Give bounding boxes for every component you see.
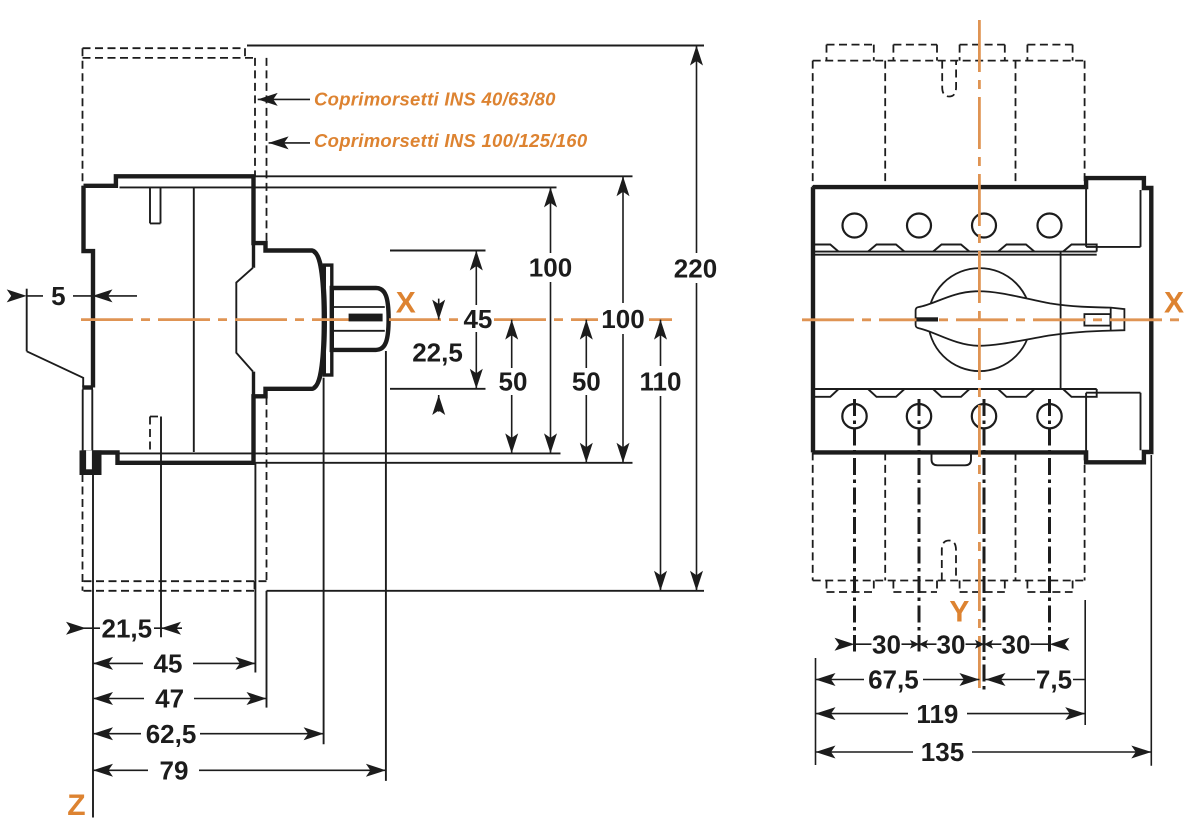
svg-text:Coprimorsetti INS 40/63/80: Coprimorsetti INS 40/63/80 bbox=[314, 89, 556, 110]
svg-text:47: 47 bbox=[155, 684, 184, 714]
svg-text:Coprimorsetti INS 100/125/160: Coprimorsetti INS 100/125/160 bbox=[314, 130, 588, 151]
svg-text:100: 100 bbox=[529, 253, 572, 283]
svg-text:50: 50 bbox=[572, 367, 601, 397]
svg-text:Z: Z bbox=[67, 789, 85, 822]
svg-text:30: 30 bbox=[937, 629, 966, 659]
svg-text:21,5: 21,5 bbox=[101, 613, 152, 643]
svg-text:X: X bbox=[396, 286, 416, 319]
svg-text:62,5: 62,5 bbox=[146, 719, 197, 749]
svg-text:45: 45 bbox=[154, 649, 183, 679]
svg-text:7,5: 7,5 bbox=[1036, 665, 1072, 695]
svg-text:67,5: 67,5 bbox=[868, 665, 919, 695]
svg-text:119: 119 bbox=[916, 699, 958, 729]
svg-text:22,5: 22,5 bbox=[412, 338, 463, 368]
svg-text:30: 30 bbox=[1002, 629, 1031, 659]
svg-text:135: 135 bbox=[921, 737, 964, 767]
svg-text:220: 220 bbox=[674, 253, 717, 283]
svg-text:X: X bbox=[1164, 286, 1184, 319]
svg-text:30: 30 bbox=[872, 629, 901, 659]
svg-text:50: 50 bbox=[499, 367, 528, 397]
svg-text:100: 100 bbox=[601, 304, 644, 334]
svg-text:79: 79 bbox=[160, 756, 189, 786]
svg-text:Y: Y bbox=[949, 595, 969, 628]
svg-text:45: 45 bbox=[463, 304, 492, 334]
svg-text:110: 110 bbox=[640, 367, 682, 397]
svg-text:5: 5 bbox=[51, 281, 65, 311]
